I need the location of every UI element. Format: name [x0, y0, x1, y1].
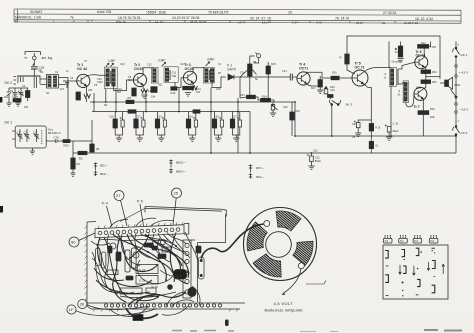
pcb bracket r2c4 — [432, 261, 435, 269]
wire C18 down — [33, 69, 35, 76]
chassis left edge — [86, 222, 88, 306]
transistor Tr7 OC74 — [414, 87, 427, 100]
svg-text:S: S — [399, 89, 401, 93]
wire vertical x179 — [178, 88, 180, 112]
svg-text:C26: C26 — [352, 123, 357, 126]
svg-text:60µF: 60µF — [393, 129, 400, 133]
decoupling cluster 4 — [186, 112, 197, 142]
wire tangle 30 — [96, 244, 108, 272]
wire tangle 9 — [167, 233, 186, 245]
svg-text:907/---: 907/--- — [256, 166, 264, 170]
transistor Tr5 OC71 — [352, 70, 368, 86]
scan artifact mid bottom — [225, 320, 229, 327]
wire gang to C7A — [46, 140, 55, 142]
box S23 — [136, 276, 158, 285]
electrolytic can A — [96, 248, 100, 266]
resistor R14 — [261, 98, 271, 102]
wire tangle 32 — [172, 300, 194, 306]
svg-text:C23: C23 — [157, 116, 162, 119]
resistor R13 — [247, 95, 256, 99]
speaker terminal bottom — [298, 263, 304, 269]
junction dots layout — [129, 245, 189, 298]
svg-text:MÄNSKCL 1 SÄ: MÄNSKCL 1 SÄ — [15, 16, 42, 20]
wire tangle 36 — [92, 258, 134, 294]
transistor Tr4 OC71 — [297, 72, 310, 85]
wire tangle 17 — [166, 292, 186, 306]
wire tangle 37 — [137, 260, 174, 284]
chassis left edge hatching — [85, 226, 88, 301]
wire tangle 31 thick bottom — [136, 292, 186, 303]
resistor R23 — [369, 141, 373, 148]
svg-text:6.: 6. — [73, 20, 76, 24]
svg-text:80µF: 80µF — [315, 159, 322, 163]
pcb bracket r2c2 — [403, 266, 406, 273]
IF transformer 3.MF — [203, 62, 214, 83]
wire R32 to rail — [422, 115, 424, 137]
svg-text:27: 27 — [116, 193, 121, 198]
small rect F — [162, 247, 171, 252]
svg-text:− 4,5 V: − 4,5 V — [459, 108, 469, 112]
svg-text:Tr 4: Tr 4 — [102, 202, 108, 206]
svg-text:4p7: 4p7 — [60, 88, 65, 91]
knob GK dark — [174, 270, 187, 280]
svg-text:Tr2: Tr2 — [400, 239, 404, 243]
svg-text:C2: C2 — [24, 130, 28, 134]
svg-text:S: S — [385, 72, 387, 76]
wire rail y136 — [295, 135, 456, 137]
wire tangle 34 loop below — [110, 309, 138, 316]
wire jack to C18 — [33, 60, 35, 66]
wire Tr7 emitter — [422, 99, 424, 111]
speaker SP — [445, 77, 453, 89]
svg-text:2.MF: 2.MF — [158, 59, 165, 63]
connector pair 861 864 — [94, 163, 109, 177]
dark blob c — [196, 246, 201, 253]
wire vertical x295 — [294, 102, 296, 136]
small rect E — [107, 270, 118, 275]
ground DK2 b — [15, 98, 20, 106]
wire mid to output node — [426, 76, 440, 78]
loudspeaker rear view — [244, 208, 317, 281]
pcb arrow c2 down — [399, 265, 402, 275]
svg-text:1.34: 1.34 — [292, 21, 298, 25]
capacitor squiggle Tr3 emitter — [191, 86, 197, 90]
resistor R4 — [76, 92, 80, 100]
svg-text:R11: R11 — [158, 84, 163, 87]
capacitor C36 — [354, 120, 372, 137]
svg-text:50: 50 — [71, 240, 76, 245]
oscillator coil S1 S2 — [47, 75, 59, 89]
svg-text:R24: R24 — [64, 144, 70, 148]
svg-text:R15: R15 — [271, 63, 276, 66]
chassis top strip — [95, 222, 189, 238]
wire tangle 27 — [163, 234, 184, 254]
wire tangle 22 — [118, 234, 158, 271]
dark blob h — [152, 246, 157, 250]
svg-text:12. 72.: 12. 72. — [155, 20, 164, 24]
battery tap arrow — [283, 269, 301, 294]
transistor Tr3 OC45 — [183, 71, 196, 84]
dark block TR — [133, 315, 143, 321]
decoupling cluster 5 — [212, 112, 223, 142]
capacitor C7A — [56, 139, 64, 142]
callout circle 25 — [172, 188, 182, 225]
ferrite antenna coil DK2 — [17, 75, 40, 77]
volume pot R8 — [248, 56, 257, 98]
wire 1.MF secondary to Tr2 base — [114, 80, 134, 91]
wire tangle 20 — [91, 241, 110, 245]
component C mid — [125, 250, 130, 272]
resistor R2 inline — [78, 151, 87, 154]
wire tangle 8 — [158, 233, 184, 252]
capacitor C20 arrow — [270, 102, 278, 117]
wire R22 R23 — [370, 131, 372, 141]
svg-text:2k2: 2k2 — [4, 96, 9, 99]
svg-text:OA79: OA79 — [227, 67, 236, 71]
pcb mark r1c4 — [432, 248, 435, 250]
pcb bracket r1c3 — [416, 248, 419, 255]
wire R23 to bus — [370, 149, 372, 153]
svg-text:C13: C13 — [180, 63, 185, 66]
pcb dot bottom — [402, 290, 403, 291]
trimmer arrow 2.MF — [162, 62, 166, 66]
speaker wedge bottom — [253, 254, 281, 277]
transistor pinout Tr1 — [383, 236, 392, 244]
svg-text:1.MF: 1.MF — [108, 59, 115, 63]
wire tangle 16 thick — [128, 296, 158, 306]
chassis right edge step — [198, 214, 226, 243]
capacitor C18 — [31, 67, 38, 69]
transistor Tr2 OC45 — [133, 73, 146, 86]
wire detector out — [240, 70, 248, 98]
chassis top left corner — [87, 221, 96, 224]
svg-text:R30: R30 — [432, 71, 437, 74]
svg-text:24.25 P 26: 24.25 P 26 — [404, 21, 418, 25]
pcb dot r1c3 — [420, 251, 422, 253]
svg-text:1555/4. 1636.: 1555/4. 1636. — [146, 10, 167, 14]
wire Tr2 collector to 2.MF — [143, 68, 153, 75]
svg-text:70E: 70E — [172, 74, 177, 78]
wire S21 to Tr7 base — [406, 94, 414, 107]
svg-text:R1: R1 — [77, 162, 81, 166]
callout circle LF — [67, 305, 157, 316]
svg-text:861/---: 861/--- — [100, 164, 108, 168]
resistor 100k — [12, 95, 21, 102]
wire tangle 29 — [92, 252, 120, 293]
capacitor C19 — [324, 86, 328, 95]
chassis right inner edge — [191, 240, 198, 302]
svg-text:R33: R33 — [430, 108, 435, 111]
resistor R17 emitter — [307, 76, 324, 94]
wire tangle 10 — [170, 233, 188, 285]
capacitor C21 — [307, 153, 322, 170]
decoupling cluster 3 — [155, 112, 166, 142]
speaker wedge top — [276, 211, 301, 231]
wire speaker return — [451, 89, 457, 96]
wire vertical x211 — [210, 88, 212, 154]
wire to Tr4 base — [240, 77, 297, 79]
resistor R31 — [421, 80, 431, 84]
pcb bracket r1c2 — [402, 250, 405, 257]
svg-text:R13: R13 — [240, 94, 245, 97]
pcb arrow c4 down — [427, 262, 430, 271]
svg-text:26.: 26. — [288, 11, 293, 15]
callout circle 27 — [114, 191, 127, 227]
wire tangle 25 — [145, 234, 181, 272]
coupling capacitor C14 — [290, 74, 292, 81]
IF transformer 2.MF winding a — [152, 68, 159, 84]
svg-text:C21: C21 — [313, 150, 318, 153]
ground Tr3 emitter — [185, 93, 191, 97]
wire tangle 28 — [172, 234, 190, 258]
resistor R18A — [328, 95, 334, 98]
wire S11 secondary to Tr6 base — [398, 62, 415, 69]
pcb panel outline — [383, 245, 448, 299]
wire vertical x238 — [237, 98, 239, 153]
svg-text:R20: R20 — [421, 42, 426, 45]
resistor R11 — [151, 87, 157, 93]
wire tangle 33 — [192, 286, 200, 306]
resistor R22 — [369, 124, 373, 132]
scan smudge bottom row — [172, 330, 234, 333]
svg-text:56: 56 — [382, 21, 386, 25]
svg-text:Tr 5: Tr 5 — [137, 200, 143, 204]
wire tangle 24 — [135, 234, 152, 258]
svg-text:C19: C19 — [330, 89, 335, 92]
wire tangle 1 — [98, 238, 152, 287]
wire tangle 6 — [140, 234, 176, 247]
tiny value labels speckle — [4, 42, 437, 153]
pcb arrow up right — [442, 264, 445, 274]
ground R1 — [70, 173, 75, 177]
wire Tr6 emitter to R30 — [424, 67, 426, 70]
wire tangle 19 below edge — [128, 306, 148, 317]
svg-text:Tr1: Tr1 — [384, 239, 388, 243]
IF transformer 1.MF — [105, 63, 118, 88]
svg-text:C17: C17 — [136, 116, 141, 119]
svg-text:C16: C16 — [109, 115, 114, 119]
svg-text:C7A: C7A — [54, 135, 60, 139]
small circle comp b — [133, 252, 139, 258]
svg-text:4,5 VOLT: 4,5 VOLT — [274, 301, 293, 306]
svg-text:SK 3: SK 3 — [346, 103, 353, 107]
DK2 trimmer cluster — [7, 88, 30, 101]
pcb dot r2c3 — [417, 268, 419, 270]
transistor Tr1 OC44 — [77, 74, 90, 87]
svg-text:40E: 40E — [430, 116, 435, 119]
svg-text:ant. ing.: ant. ing. — [42, 56, 53, 60]
svg-text:C11: C11 — [172, 71, 177, 75]
svg-text:=T29: =T29 — [430, 45, 437, 49]
svg-text:Tr4: Tr4 — [430, 239, 434, 243]
resistor R10 top — [395, 42, 404, 63]
wire Tr4 collector — [307, 72, 331, 78]
wire tangle 35 — [99, 239, 168, 240]
svg-text:C10: C10 — [120, 63, 125, 66]
svg-text:904/---: 904/--- — [256, 175, 264, 179]
svg-text:C14: C14 — [282, 70, 287, 73]
wires above strip crossing — [110, 218, 174, 227]
dark blob g — [108, 246, 112, 253]
decoupling cluster 1 — [109, 112, 124, 142]
wire R31 to Tr7 collector — [423, 84, 426, 89]
dark blob e — [168, 285, 173, 290]
wire DK2 to osc — [40, 79, 46, 85]
pcb bracket r1c1 — [385, 251, 388, 259]
resistor R16 — [331, 76, 339, 80]
wire S11 primary bottom — [390, 86, 392, 136]
svg-text:R: R — [340, 56, 342, 60]
wire R16 to Tr5 base — [339, 77, 352, 79]
capacitor squiggle Tr1 emitter — [84, 94, 90, 98]
svg-text:1. 5. 76.: 1. 5. 76. — [116, 20, 127, 24]
wire R30 R31 — [425, 74, 427, 80]
wire tangle 7 — [130, 234, 149, 259]
svg-text:Tr 7: Tr 7 — [414, 105, 420, 109]
wire vertical x105.8 — [105, 89, 107, 102]
connector pair 865 866 — [169, 160, 186, 174]
wire bottom bus y153 — [73, 152, 456, 154]
svg-text:26.27: 26.27 — [356, 21, 364, 25]
wire x68 down — [67, 78, 69, 142]
wire tangle 4 — [121, 234, 140, 266]
svg-text:C3: C3 — [33, 130, 37, 134]
wire to SK3 — [329, 98, 331, 100]
svg-text:R16: R16 — [332, 71, 337, 74]
svg-text:75 M/A 26.P5: 75 M/A 26.P5 — [208, 11, 228, 15]
wire tangle 14 — [120, 292, 176, 298]
wire tangle 23 — [127, 234, 174, 282]
svg-text:C15: C15 — [216, 88, 221, 91]
svg-text:865/2---: 865/2--- — [176, 161, 186, 165]
speaker terminal top — [264, 221, 270, 227]
tick marks left — [14, 77, 17, 85]
resistor R15 — [266, 62, 270, 102]
driver transformer S11 — [384, 42, 399, 87]
label Tr 4 layout — [102, 202, 113, 227]
svg-text:C25: C25 — [214, 116, 219, 119]
svg-text:C13: C13 — [146, 90, 151, 93]
svg-text:C27: C27 — [232, 116, 237, 119]
svg-text:C12: C12 — [147, 64, 152, 67]
svg-text:864/---: 864/--- — [100, 172, 108, 176]
winding S21 — [398, 81, 409, 103]
svg-text:5k6: 5k6 — [128, 79, 133, 82]
title table — [14, 9, 461, 23]
svg-text:Tr3: Tr3 — [414, 239, 418, 243]
wire tangle 2 — [104, 238, 158, 301]
wire R13 R14 link — [240, 97, 274, 102]
svg-text:OC45: OC45 — [185, 67, 194, 71]
resistor R13h — [183, 86, 194, 90]
wire Tr1 emitter cluster — [85, 86, 87, 102]
battery column — [453, 42, 460, 154]
capacitor squiggle Tr2 emitter — [141, 89, 147, 93]
arrow mark — [32, 62, 34, 65]
svg-text:7.: 7. — [91, 20, 94, 24]
scan artifact left edge b — [0, 206, 3, 213]
svg-text:25: 25 — [174, 191, 179, 196]
resistor R20 — [418, 45, 429, 49]
svg-text:OC71: OC71 — [299, 66, 308, 70]
wire tangle 38 — [150, 238, 189, 278]
resistor R1 — [71, 158, 75, 169]
callout circle 20 — [78, 299, 148, 309]
wire supply rail y111.5 — [92, 111, 250, 113]
wire tangle 21 — [105, 234, 118, 294]
svg-text:Batteriets mittpunkt: Batteriets mittpunkt — [265, 308, 304, 313]
wire AGC bus y102 — [90, 101, 295, 103]
svg-text:220: 220 — [24, 106, 29, 109]
wire R20 to rail — [429, 42, 431, 47]
pcb bracket r3c3 — [417, 279, 420, 286]
scan artifact left edge a — [0, 97, 2, 103]
transistor Tr6 OC74 — [415, 56, 428, 69]
svg-text:1k5: 1k5 — [196, 91, 201, 94]
svg-text:C1: C1 — [17, 130, 21, 134]
resistor R18 — [290, 102, 294, 136]
tuning gang box — [12, 126, 46, 148]
svg-text:035: 035 — [88, 89, 93, 92]
dark can right bottom — [188, 287, 196, 296]
switch SK3 — [329, 100, 340, 136]
svg-text:1.: 1. — [53, 20, 56, 24]
svg-text:GK 2: GK 2 — [461, 131, 468, 135]
wire 3.MF to diode — [212, 77, 226, 88]
svg-text:16.17: 16.17 — [262, 20, 270, 24]
svg-text:DK 1: DK 1 — [5, 121, 13, 125]
transistor pinout Tr2 — [399, 236, 408, 244]
svg-text:+ 4,5 V: + 4,5 V — [459, 71, 469, 75]
dark blob f — [126, 276, 133, 280]
pcb small marks — [386, 253, 435, 296]
resistor R12 — [171, 87, 177, 91]
speaker cable thick — [201, 224, 264, 259]
chassis bottom edge — [87, 303, 245, 309]
dark blob b — [158, 254, 166, 259]
svg-text:C 10: C 10 — [393, 122, 399, 126]
svg-text:SIGNAT: SIGNAT — [30, 10, 42, 14]
wire tangle 13 — [96, 280, 150, 294]
wire R21 to Tr5 — [347, 64, 355, 74]
svg-text:C21: C21 — [315, 156, 320, 160]
svg-text:10k: 10k — [151, 95, 156, 99]
capacitor 4p7 — [65, 83, 69, 89]
antenna jack J1 — [25, 52, 41, 60]
wire tangle 5 — [131, 234, 182, 266]
junction dots — [93, 101, 457, 154]
svg-text:GK 1: GK 1 — [461, 53, 468, 57]
resistor R5 — [126, 100, 134, 103]
label Osc 88-108 — [48, 128, 61, 135]
wire tangle 26 — [153, 234, 166, 258]
stray mark right of chassis — [306, 281, 326, 285]
svg-text:100k: 100k — [12, 95, 19, 99]
svg-text:OC45: OC45 — [134, 67, 143, 71]
svg-text:R2: R2 — [79, 157, 83, 161]
svg-text:R 16: R 16 — [152, 285, 159, 289]
chassis right strip — [183, 240, 191, 298]
svg-text:OC 44: OC 44 — [77, 67, 87, 71]
wire Tr5 collector to S11 — [364, 67, 391, 72]
svg-text:3-5Ω: 3-5Ω — [454, 83, 460, 87]
scan smudge bottom right — [424, 329, 462, 332]
svg-text:14.77: 14.77 — [238, 20, 246, 24]
svg-text:R 1k: R 1k — [375, 127, 381, 130]
decoupling cluster 6 — [230, 112, 241, 142]
wire vertical x250 — [249, 112, 251, 154]
svg-text:R18: R18 — [295, 110, 300, 113]
